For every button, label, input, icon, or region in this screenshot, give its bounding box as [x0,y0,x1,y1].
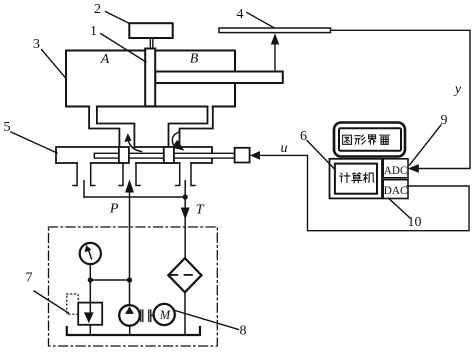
junction dot gauge [88,277,93,282]
svg-text:7: 7 [26,271,33,286]
piston 1 [145,49,155,107]
displacement sensor bar 4 [219,28,331,33]
spool land left [119,147,129,163]
wire y feedback [331,30,471,168]
label 8 [174,310,247,339]
chinese text: 计算机 (computer) [340,173,374,183]
arrow into torque motor [250,151,260,160]
port A passage [89,107,134,148]
dash-dot power unit box [49,227,218,346]
tank [67,327,200,335]
sensor arrow from rod [271,33,279,71]
svg-text:T: T [196,203,205,218]
svg-text:2: 2 [94,2,101,17]
flow arrow A (curved, up) [124,133,141,151]
label 7 [26,271,69,314]
svg-text:5: 5 [4,120,11,135]
svg-text:u: u [281,141,288,156]
svg-text:DAC: DAC [384,185,408,197]
piston rod [155,72,283,84]
chinese text: 图形界面 (graphic interface) [343,135,390,144]
wire u command [260,155,470,230]
pump [119,305,140,335]
svg-text:8: 8 [240,324,247,339]
DAC box 10 [383,180,408,199]
port B passage [169,107,213,149]
svg-text:3: 3 [33,37,40,52]
svg-text:P: P [109,202,119,217]
label 4 [237,7,275,28]
svg-text:A: A [100,52,110,67]
cylinder body 3 [66,51,235,107]
piston stem [150,38,153,51]
spool land right [164,147,174,163]
computer box 6 [330,159,383,199]
label 3 [33,37,67,79]
valve port legs T pair [176,163,195,186]
T return line [181,181,190,258]
svg-text:6: 6 [300,129,307,144]
svg-text:9: 9 [441,113,448,128]
arrow into ADC [408,164,419,173]
svg-text:B: B [190,52,199,67]
coupling [140,310,154,322]
filter drain wire [184,292,186,335]
relief valve 7 [78,280,102,335]
label 9 [410,113,448,165]
tank riser from valve [83,181,85,197]
motor M 8 [154,304,175,325]
svg-text:4: 4 [237,7,244,22]
torque motor square [235,148,250,163]
label 6 [300,129,334,169]
svg-text:ADC: ADC [384,165,408,177]
label 1 [90,24,146,62]
label 5 [4,120,58,153]
load mass 2 [129,23,172,38]
gauge riser wire [89,264,91,280]
P supply arrow [125,180,134,306]
pressure gauge [80,243,101,264]
label 2 [94,2,129,23]
flow arrow B (curved, down) [172,132,184,151]
junction dot T [183,194,188,199]
valve port legs P pair [119,163,140,186]
servo valve body 5 [56,147,212,163]
svg-text:M: M [159,308,171,322]
valve port legs left pair [73,163,95,186]
junction dot P [127,277,132,282]
svg-text:1: 1 [90,24,97,39]
tank bypass wire [84,196,185,198]
ADC box 9 [383,159,408,178]
monitor box (GUI) [334,123,405,157]
gauge to P wire [90,279,129,281]
pilot dotted box [67,294,78,314]
label 10 [389,198,422,230]
svg-text:y: y [453,82,462,97]
filter [168,258,201,292]
valve spool rod [94,153,234,158]
